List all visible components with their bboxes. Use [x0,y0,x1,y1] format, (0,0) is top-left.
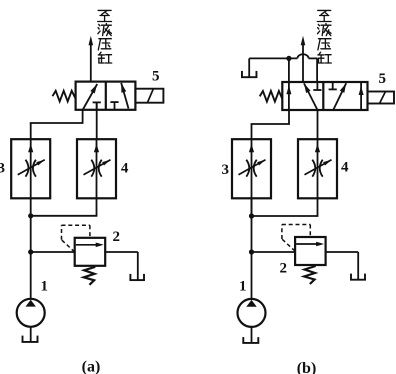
svg-text:4: 4 [121,161,129,177]
svg-text:(b): (b) [297,360,317,374]
svg-text:3: 3 [221,162,229,178]
svg-text:5: 5 [378,71,386,87]
svg-text:1: 1 [239,279,247,295]
svg-text:2: 2 [113,229,121,245]
svg-text:4: 4 [341,160,349,176]
svg-text:5: 5 [152,69,160,85]
svg-text:1: 1 [40,279,48,295]
svg-text:2: 2 [279,261,287,277]
svg-text:3: 3 [0,161,5,177]
svg-text:(a): (a) [82,359,101,374]
